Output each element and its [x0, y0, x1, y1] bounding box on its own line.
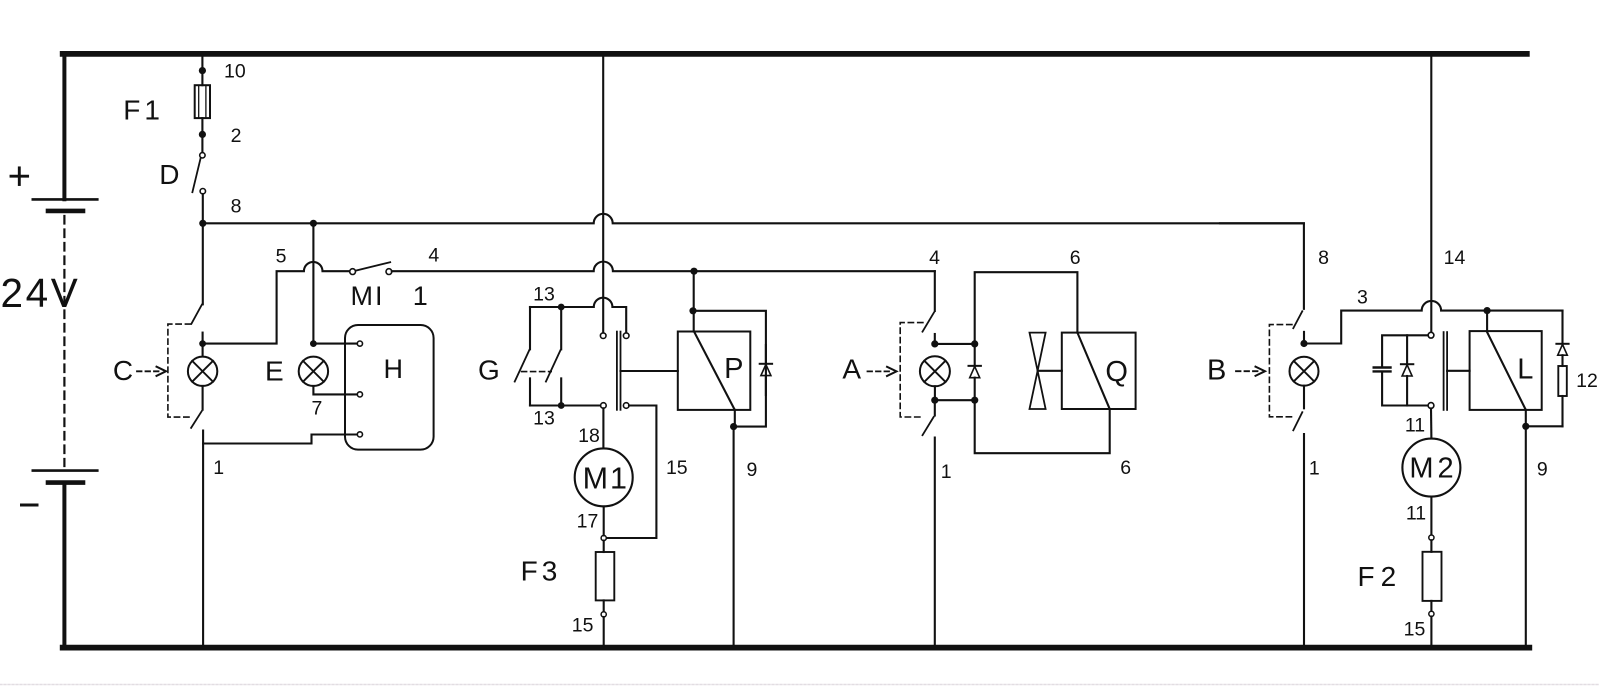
svg-text:17: 17 — [577, 510, 599, 532]
svg-text:C: C — [113, 355, 133, 386]
svg-text:13: 13 — [533, 408, 555, 430]
svg-text:3: 3 — [1357, 286, 1368, 308]
svg-text:F2: F2 — [1358, 561, 1403, 592]
svg-text:4: 4 — [428, 244, 439, 266]
svg-text:1: 1 — [941, 461, 952, 483]
svg-text:2: 2 — [231, 125, 242, 147]
svg-text:4: 4 — [929, 247, 940, 269]
svg-text:H: H — [384, 354, 404, 384]
svg-text:9: 9 — [746, 459, 757, 481]
svg-text:B: B — [1207, 355, 1226, 387]
svg-text:6: 6 — [1120, 457, 1131, 479]
svg-text:10: 10 — [224, 61, 246, 83]
svg-text:MI: MI — [351, 281, 385, 311]
svg-text:E: E — [265, 356, 284, 387]
svg-text:L: L — [1517, 354, 1533, 386]
svg-text:11: 11 — [1406, 503, 1426, 525]
svg-text:15: 15 — [666, 457, 688, 479]
svg-text:F3: F3 — [521, 556, 562, 587]
svg-text:P: P — [724, 353, 743, 385]
svg-text:8: 8 — [231, 196, 242, 218]
svg-text:1: 1 — [1309, 457, 1320, 479]
svg-text:11: 11 — [1405, 415, 1425, 437]
svg-text:A: A — [842, 354, 861, 385]
svg-text:18: 18 — [578, 425, 600, 447]
svg-text:12: 12 — [1576, 370, 1598, 392]
svg-text:24V: 24V — [1, 270, 81, 316]
svg-text:M2: M2 — [1409, 453, 1457, 485]
svg-text:8: 8 — [1318, 247, 1329, 269]
svg-text:15: 15 — [572, 614, 594, 636]
svg-text:13: 13 — [533, 284, 555, 306]
svg-text:7: 7 — [311, 397, 322, 419]
svg-text:9: 9 — [1537, 458, 1548, 480]
svg-text:Q: Q — [1105, 356, 1128, 388]
svg-text:G: G — [478, 354, 500, 385]
svg-text:M1: M1 — [583, 461, 629, 495]
svg-text:15: 15 — [1404, 619, 1426, 641]
svg-text:6: 6 — [1070, 247, 1081, 269]
svg-text:1: 1 — [213, 457, 224, 479]
svg-text:F1: F1 — [123, 95, 164, 126]
svg-text:14: 14 — [1444, 247, 1466, 269]
svg-text:1: 1 — [413, 281, 428, 311]
svg-text:5: 5 — [276, 246, 287, 268]
svg-text:D: D — [159, 159, 179, 190]
